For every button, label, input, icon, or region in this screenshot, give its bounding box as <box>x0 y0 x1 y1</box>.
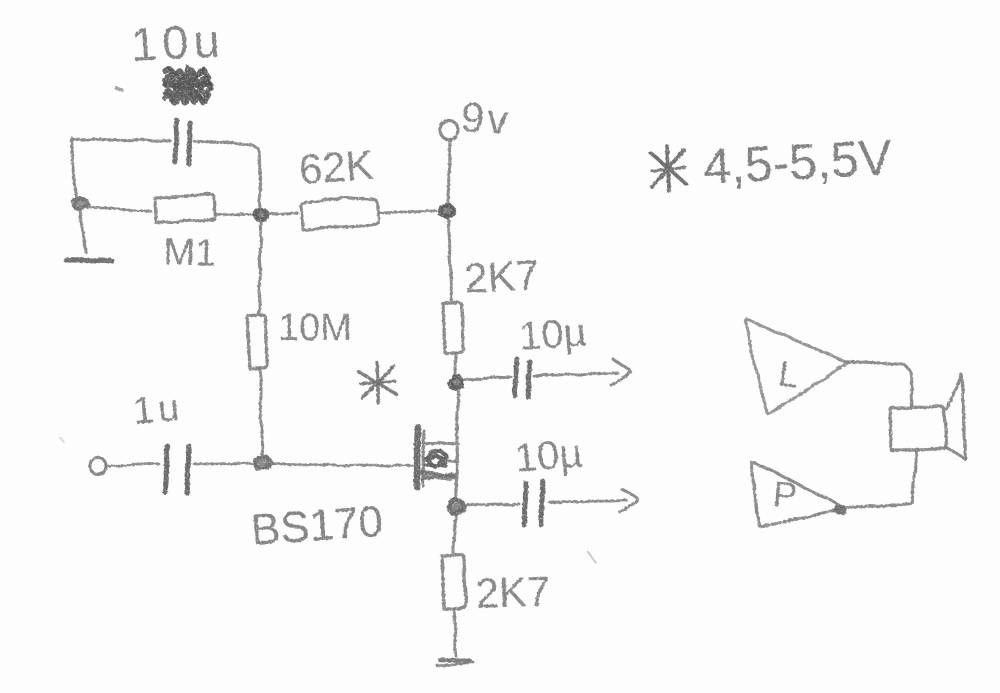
label supply note 4,5-5,5V <box>702 129 894 195</box>
wire node A to M1 <box>90 207 151 211</box>
wire node C to R2 <box>449 220 452 300</box>
capacitor C4 10u left plate <box>524 483 526 525</box>
label amp L <box>776 352 802 395</box>
wire node E to gate <box>272 464 413 467</box>
speaker horn <box>946 374 966 460</box>
wire speaker to P <box>845 449 917 508</box>
capacitor C3 1u right plate <box>187 446 189 493</box>
wire M1 to node B <box>216 214 254 215</box>
capacitor C4 10u right plate <box>541 481 543 525</box>
wire node B to R3 <box>259 223 262 313</box>
label Q1 BS170 <box>249 497 384 555</box>
svg-text:10M: 10M <box>278 307 352 349</box>
label R1 value 62K <box>297 141 375 193</box>
transistor Q1 source lead <box>420 472 456 479</box>
svg-text:10u: 10u <box>130 13 226 71</box>
ground bar (left) <box>66 260 112 261</box>
wire input to C3 <box>106 463 159 466</box>
svg-text:2K7: 2K7 <box>475 567 551 617</box>
wire R2 to node D <box>455 353 456 375</box>
wire node F to R4 <box>453 517 456 552</box>
svg-text:2K7: 2K7 <box>463 251 540 302</box>
transistor Q1 body blob (arrow scribble) <box>425 451 458 467</box>
svg-text:62K: 62K <box>297 141 375 193</box>
svg-text:10µ: 10µ <box>513 431 584 481</box>
microphone M1 body (box) <box>155 194 215 223</box>
svg-text:BS170: BS170 <box>249 497 384 555</box>
transistor Q1 drain lead <box>423 441 458 445</box>
capacitor C2 10u left plate <box>515 359 517 396</box>
label C4 value 10u <box>513 431 584 481</box>
svg-text:4,5-5,5V: 4,5-5,5V <box>702 129 894 195</box>
capacitor C1 10u left plate <box>175 120 177 162</box>
faint smudge <box>60 438 596 563</box>
capacitor C1 10u right plate <box>189 123 190 164</box>
svg-text:1u: 1u <box>131 387 185 433</box>
resistor R1 62K body <box>301 197 379 230</box>
amplifier P apex blob <box>835 506 846 514</box>
wire top loop right horizontal <box>195 142 261 208</box>
transistor Q1 gate bar <box>417 427 418 487</box>
node D (drain node) <box>449 376 463 390</box>
asterisk marker (drain node) <box>359 363 396 403</box>
wire drain vertical <box>457 391 459 441</box>
wire C4 to arrow <box>549 500 626 502</box>
node F (source node) <box>448 499 466 515</box>
resistor R2 2K7 body <box>443 302 463 353</box>
wire source vertical <box>456 447 457 499</box>
wire top loop left horizontal <box>72 139 170 142</box>
node E (gate junction) <box>254 455 273 469</box>
wire node B to R1 <box>269 213 298 214</box>
ground stem (left) <box>80 211 86 252</box>
label amp P <box>771 473 798 516</box>
node B (bias junction) <box>254 209 268 221</box>
tiny pencil dot <box>116 88 122 90</box>
capacitor C2 10u right plate <box>528 362 530 397</box>
label R2 value 2K7 <box>463 251 540 302</box>
transistor Q1 channel bar <box>423 431 424 486</box>
wire R1 to node C <box>379 211 436 213</box>
terminal input (open circle) <box>90 458 106 475</box>
wire top loop left vertical <box>72 139 76 201</box>
label R4 value 2K7 <box>475 567 551 617</box>
node C (supply junction) <box>439 204 455 219</box>
svg-text:10µ: 10µ <box>518 310 588 359</box>
wire R4 to ground <box>454 609 456 656</box>
label C2 value 10u <box>518 310 588 359</box>
arrowhead output 1 <box>611 359 630 385</box>
arrowhead output 2 <box>620 489 638 512</box>
wire L to speaker <box>846 362 912 406</box>
terminal 9V (open circle) <box>440 121 458 140</box>
wire C2 to arrow <box>534 373 618 376</box>
amplifier L triangle <box>745 319 848 414</box>
speaker box <box>890 406 946 450</box>
node A (left junction) <box>72 198 89 211</box>
wire node F to C4 <box>467 504 519 505</box>
label 9v <box>459 93 513 143</box>
svg-text:L: L <box>776 352 802 395</box>
wire R3 to node E <box>260 369 263 454</box>
scribbled-out text blob <box>165 67 212 103</box>
label R3 value 10M <box>278 307 352 349</box>
ground (bottom) <box>437 660 473 666</box>
resistor R4 2K7 body <box>442 555 466 609</box>
amplifier P triangle <box>751 462 845 526</box>
svg-text:M1: M1 <box>163 231 217 275</box>
wire 9V to node C <box>448 140 450 201</box>
label C3 value 1u <box>131 387 185 433</box>
svg-text:9v: 9v <box>459 93 513 143</box>
label M1 <box>163 231 217 275</box>
label C1 value 10u <box>130 13 226 71</box>
capacitor C3 1u left plate <box>165 446 167 492</box>
wire node D to C2 <box>464 377 511 380</box>
svg-text:P: P <box>771 473 798 516</box>
wire C3 to node E <box>194 462 253 465</box>
resistor R3 10M body <box>247 315 267 369</box>
asterisk marker (note) <box>651 146 686 191</box>
